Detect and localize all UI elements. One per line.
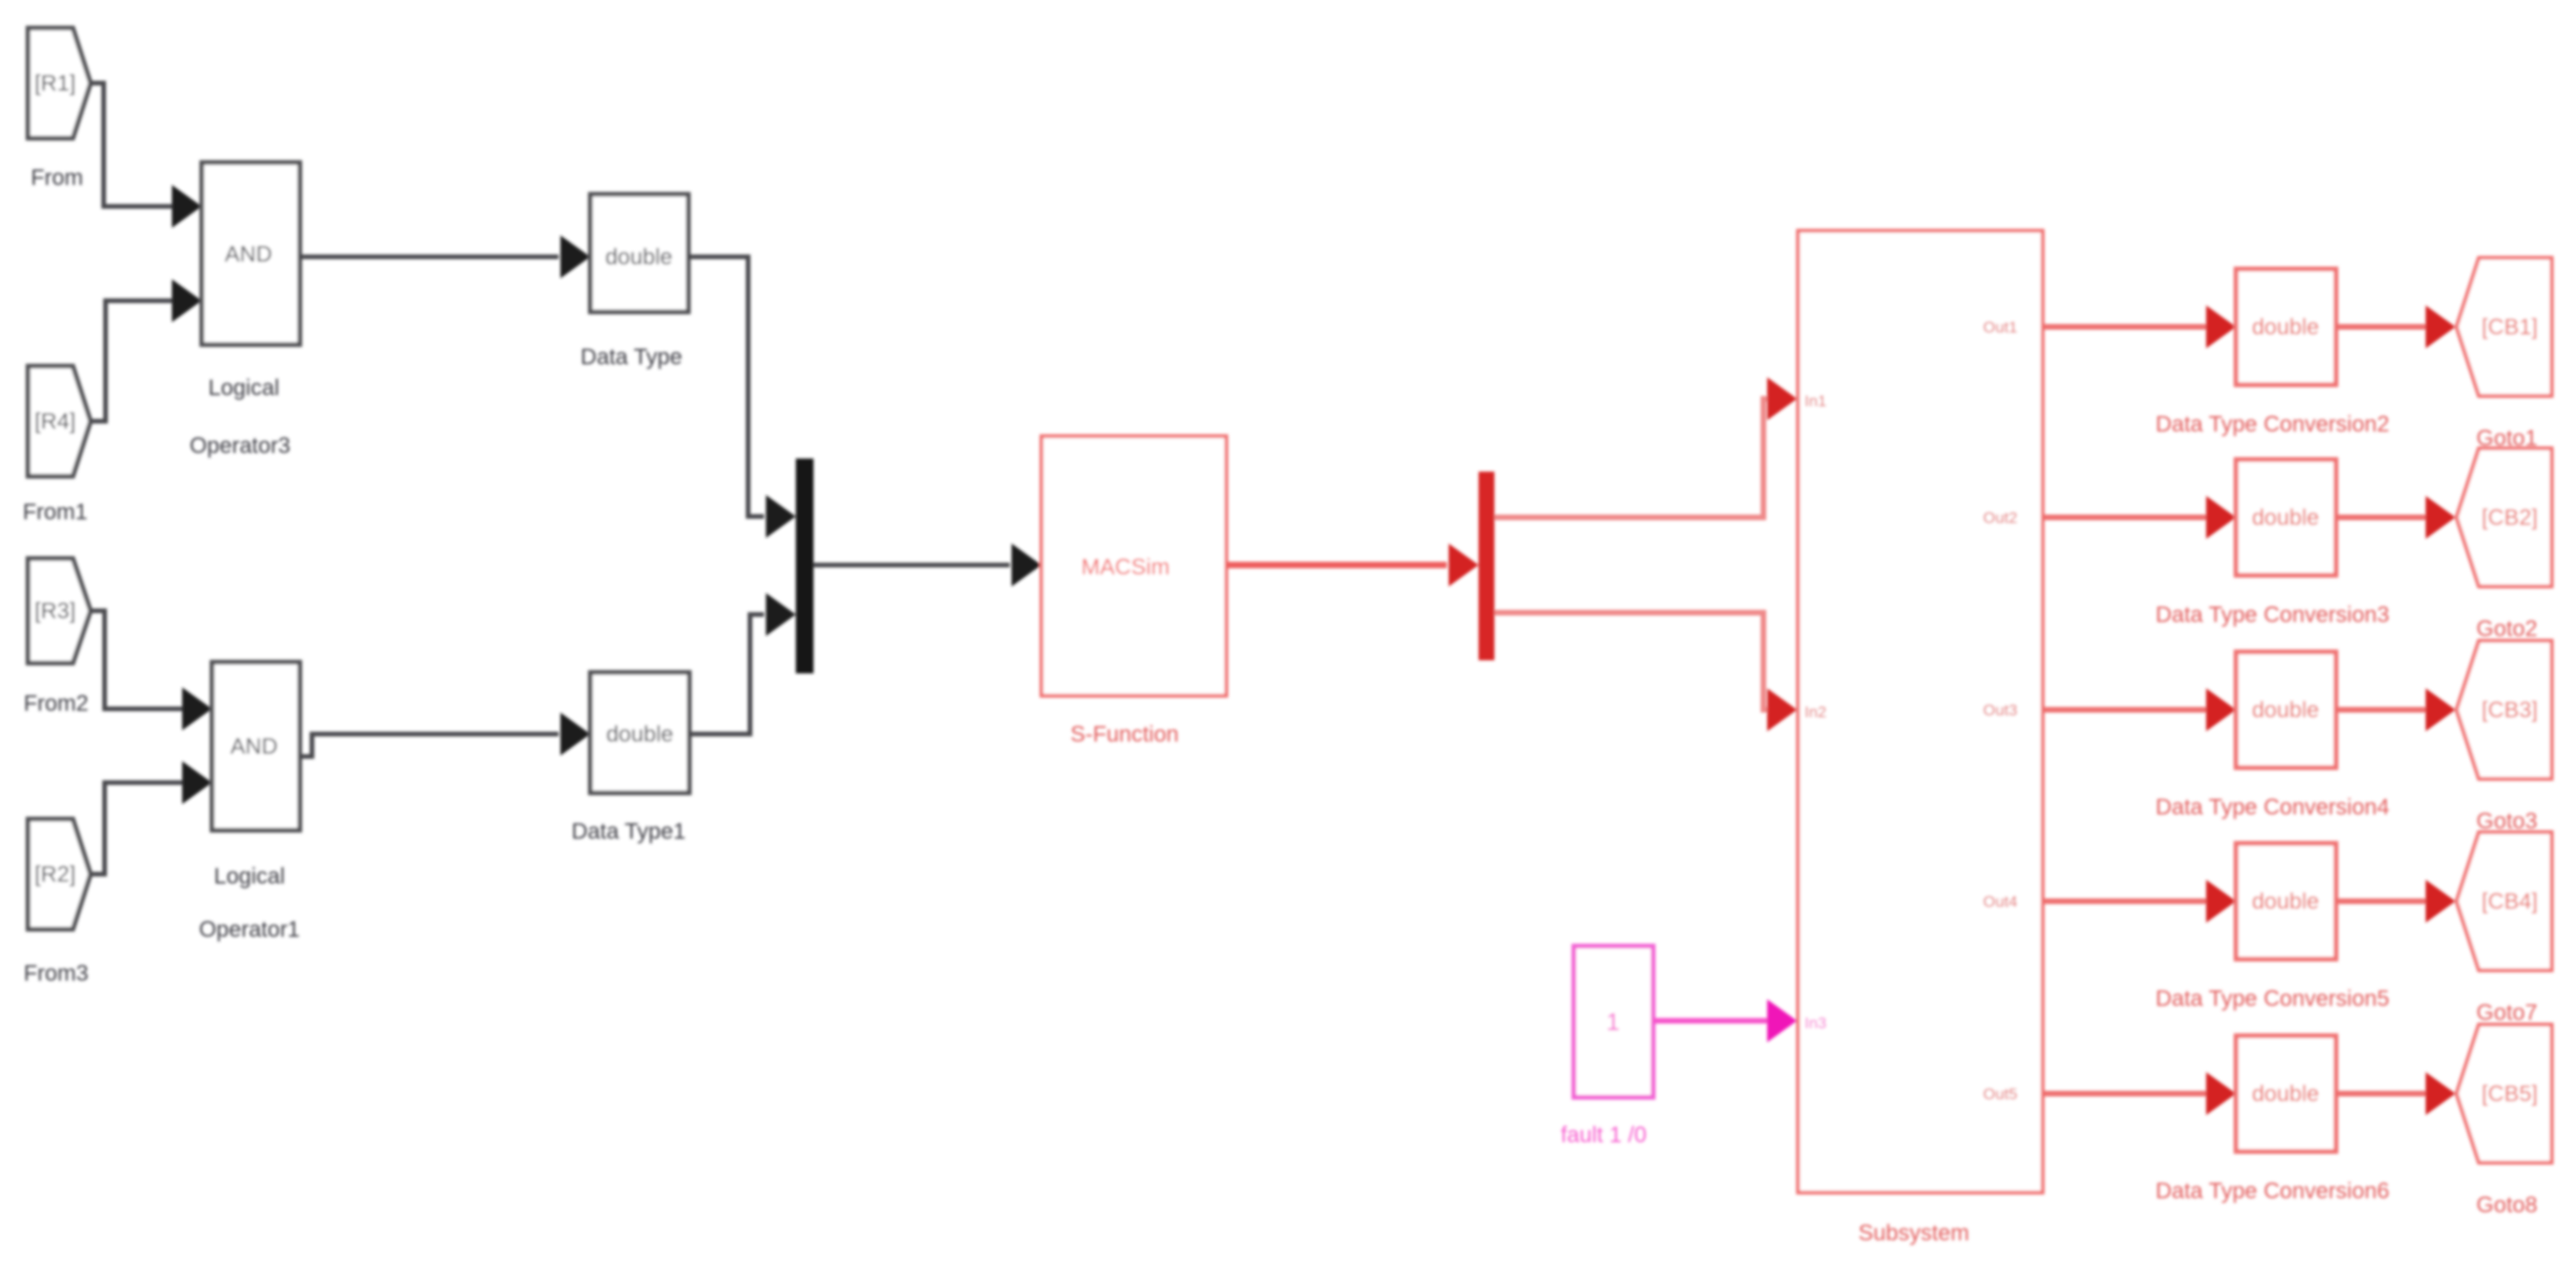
- svg-text:Goto3: Goto3: [2476, 809, 2537, 834]
- svg-text:fault 1 /0: fault 1 /0: [1561, 1123, 1647, 1148]
- svg-text:In3: In3: [1805, 1014, 1827, 1032]
- svg-text:In1: In1: [1805, 392, 1827, 410]
- svg-text:Operator1: Operator1: [199, 917, 300, 942]
- svg-text:double: double: [2252, 315, 2319, 340]
- svg-text:Out3: Out3: [1983, 701, 2017, 719]
- svg-text:From2: From2: [23, 691, 88, 716]
- svg-text:Out4: Out4: [1983, 893, 2017, 911]
- svg-text:[CB5]: [CB5]: [2482, 1081, 2538, 1107]
- svg-text:Subsystem: Subsystem: [1859, 1221, 1970, 1246]
- svg-text:Out5: Out5: [1983, 1085, 2017, 1103]
- svg-text:From1: From1: [22, 500, 87, 525]
- svg-text:S-Function: S-Function: [1070, 722, 1179, 747]
- svg-text:Logical: Logical: [208, 375, 279, 401]
- svg-text:Data Type Conversion5: Data Type Conversion5: [2156, 986, 2389, 1011]
- svg-text:From3: From3: [23, 961, 88, 986]
- svg-text:[CB4]: [CB4]: [2482, 889, 2538, 914]
- svg-text:Out2: Out2: [1983, 509, 2017, 527]
- svg-text:From: From: [31, 165, 83, 191]
- svg-text:1: 1: [1606, 1008, 1620, 1036]
- svg-text:Out1: Out1: [1983, 318, 2017, 336]
- svg-text:[R3]: [R3]: [35, 599, 76, 624]
- svg-text:[R4]: [R4]: [35, 409, 76, 434]
- svg-text:[R2]: [R2]: [35, 862, 76, 887]
- svg-text:Goto7: Goto7: [2476, 1000, 2537, 1025]
- svg-text:Data Type: Data Type: [581, 345, 683, 370]
- svg-text:Operator3: Operator3: [190, 433, 290, 459]
- svg-text:double: double: [606, 722, 673, 747]
- svg-text:Data Type Conversion3: Data Type Conversion3: [2156, 602, 2389, 628]
- svg-text:In2: In2: [1805, 703, 1827, 721]
- svg-text:Goto2: Goto2: [2476, 616, 2537, 642]
- svg-text:[CB1]: [CB1]: [2482, 315, 2538, 340]
- svg-text:[CB2]: [CB2]: [2482, 505, 2538, 530]
- svg-text:double: double: [2252, 698, 2319, 723]
- svg-text:double: double: [2252, 1081, 2319, 1107]
- svg-text:AND: AND: [225, 242, 273, 267]
- svg-text:Goto8: Goto8: [2476, 1193, 2537, 1218]
- svg-text:double: double: [605, 245, 672, 270]
- svg-text:MACSim: MACSim: [1082, 555, 1170, 580]
- svg-text:double: double: [2252, 505, 2319, 530]
- svg-text:AND: AND: [231, 734, 278, 759]
- svg-text:[R1]: [R1]: [35, 71, 76, 96]
- svg-text:Logical: Logical: [214, 864, 285, 889]
- svg-text:Data Type1: Data Type1: [572, 819, 686, 844]
- svg-text:Data Type Conversion4: Data Type Conversion4: [2156, 795, 2389, 820]
- svg-text:Data Type Conversion2: Data Type Conversion2: [2156, 412, 2389, 437]
- svg-text:Data Type Conversion6: Data Type Conversion6: [2156, 1179, 2389, 1204]
- svg-text:[CB3]: [CB3]: [2482, 698, 2538, 723]
- svg-text:double: double: [2252, 889, 2319, 914]
